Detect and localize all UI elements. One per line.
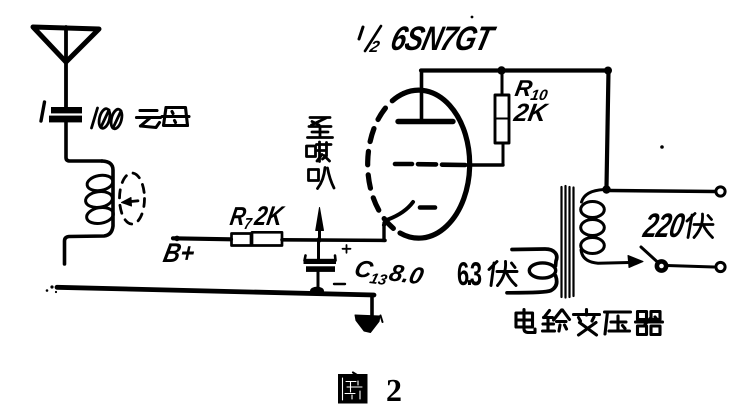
tuning arrow (adjustable core) [120, 173, 145, 224]
tube grid [395, 164, 465, 165]
label R7 2K [229, 206, 286, 229]
wire R7 to cathode [282, 238, 385, 242]
antenna [33, 27, 99, 107]
node C13 / ground bus [310, 287, 324, 296]
label 6.3伏 [458, 262, 517, 286]
transformer T1 core [562, 186, 574, 298]
transformer secondary 6.3V winding [507, 249, 557, 293]
transformer primary winding [581, 190, 629, 264]
wire R10 to grid [465, 163, 503, 166]
speck [660, 145, 664, 149]
capacitor C1 (100 mica) [41, 102, 82, 122]
tube plate [398, 71, 453, 122]
label R10 2K [513, 80, 550, 121]
wire C1 to coil [66, 122, 102, 161]
label 220 伏 [642, 213, 713, 237]
speck [50, 285, 53, 288]
wire node to top terminal [610, 191, 715, 192]
node transformer top [602, 185, 610, 193]
wire bus to ground [370, 295, 374, 316]
label 1/2 6SN7GT [359, 26, 497, 52]
terminal 220V top [716, 187, 725, 196]
tube cathode [384, 202, 435, 240]
label mica 云母 [137, 108, 190, 128]
coil L1 [65, 161, 115, 264]
switch S1 [628, 247, 714, 271]
resistor R7 [232, 232, 283, 245]
top wire plate to node [421, 71, 609, 188]
ground bus wire [57, 287, 374, 295]
terminal 220V bottom [716, 262, 725, 271]
resistor R10 [495, 74, 509, 165]
speck [55, 291, 57, 293]
label 100 [92, 108, 124, 130]
tube U1 envelope [368, 90, 470, 238]
wire B+ to R7 [173, 238, 231, 239]
caption 圖 2 [338, 373, 401, 404]
label C13 8.0 [353, 260, 425, 290]
label 至喇叭 (to speaker) [307, 118, 335, 189]
speck [471, 16, 474, 19]
label B+ [162, 243, 195, 262]
to-speaker arrow [316, 208, 324, 242]
ground [355, 315, 383, 333]
capacitor C13 [304, 239, 351, 290]
label 电铃变压器 (bell transformer) [516, 310, 663, 336]
node plate/R10 [497, 66, 505, 74]
speck [46, 289, 49, 292]
